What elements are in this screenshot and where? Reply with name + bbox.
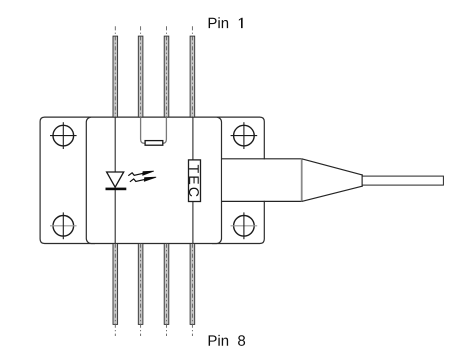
thermistor wire left: [141, 117, 145, 143]
light emission arrow 2: [130, 177, 156, 182]
thermistor box: [145, 141, 163, 146]
thermistor wire right: [162, 117, 166, 143]
TEC supply wire bottom: [192, 201, 194, 243]
package body: [86, 117, 221, 243]
pin 5 bottom lead: [190, 244, 195, 337]
pin 1 top lead: [113, 26, 118, 117]
TEC cooler box: [189, 160, 201, 202]
label Pin 8: [209, 335, 245, 346]
pin 4 top lead: [190, 26, 195, 117]
light emission arrow 1: [128, 171, 153, 176]
screw hole top-right: [231, 122, 258, 149]
label Pin 1: [209, 17, 243, 28]
left flange: [40, 117, 95, 243]
pin 3 top lead: [164, 26, 169, 117]
fiber snout barrel: [222, 159, 302, 202]
snout joint line: [301, 159, 303, 202]
fiber taper: [302, 159, 363, 202]
TEC supply wire top: [192, 117, 194, 160]
TEC label: [189, 165, 199, 197]
right flange: [212, 117, 264, 243]
pin 8 bottom lead: [113, 244, 118, 337]
fiber: [362, 176, 443, 185]
screw hole top-left: [50, 122, 77, 149]
screw hole bottom-left: [50, 212, 77, 239]
pin 2 top lead: [138, 26, 143, 117]
screw hole bottom-right: [231, 212, 258, 239]
laser diode anode wire: [114, 117, 116, 172]
pin 7 bottom lead: [138, 244, 143, 337]
pin 6 bottom lead: [164, 244, 169, 337]
laser diode cathode wire: [114, 190, 116, 244]
laser diode LD1: [106, 172, 127, 190]
